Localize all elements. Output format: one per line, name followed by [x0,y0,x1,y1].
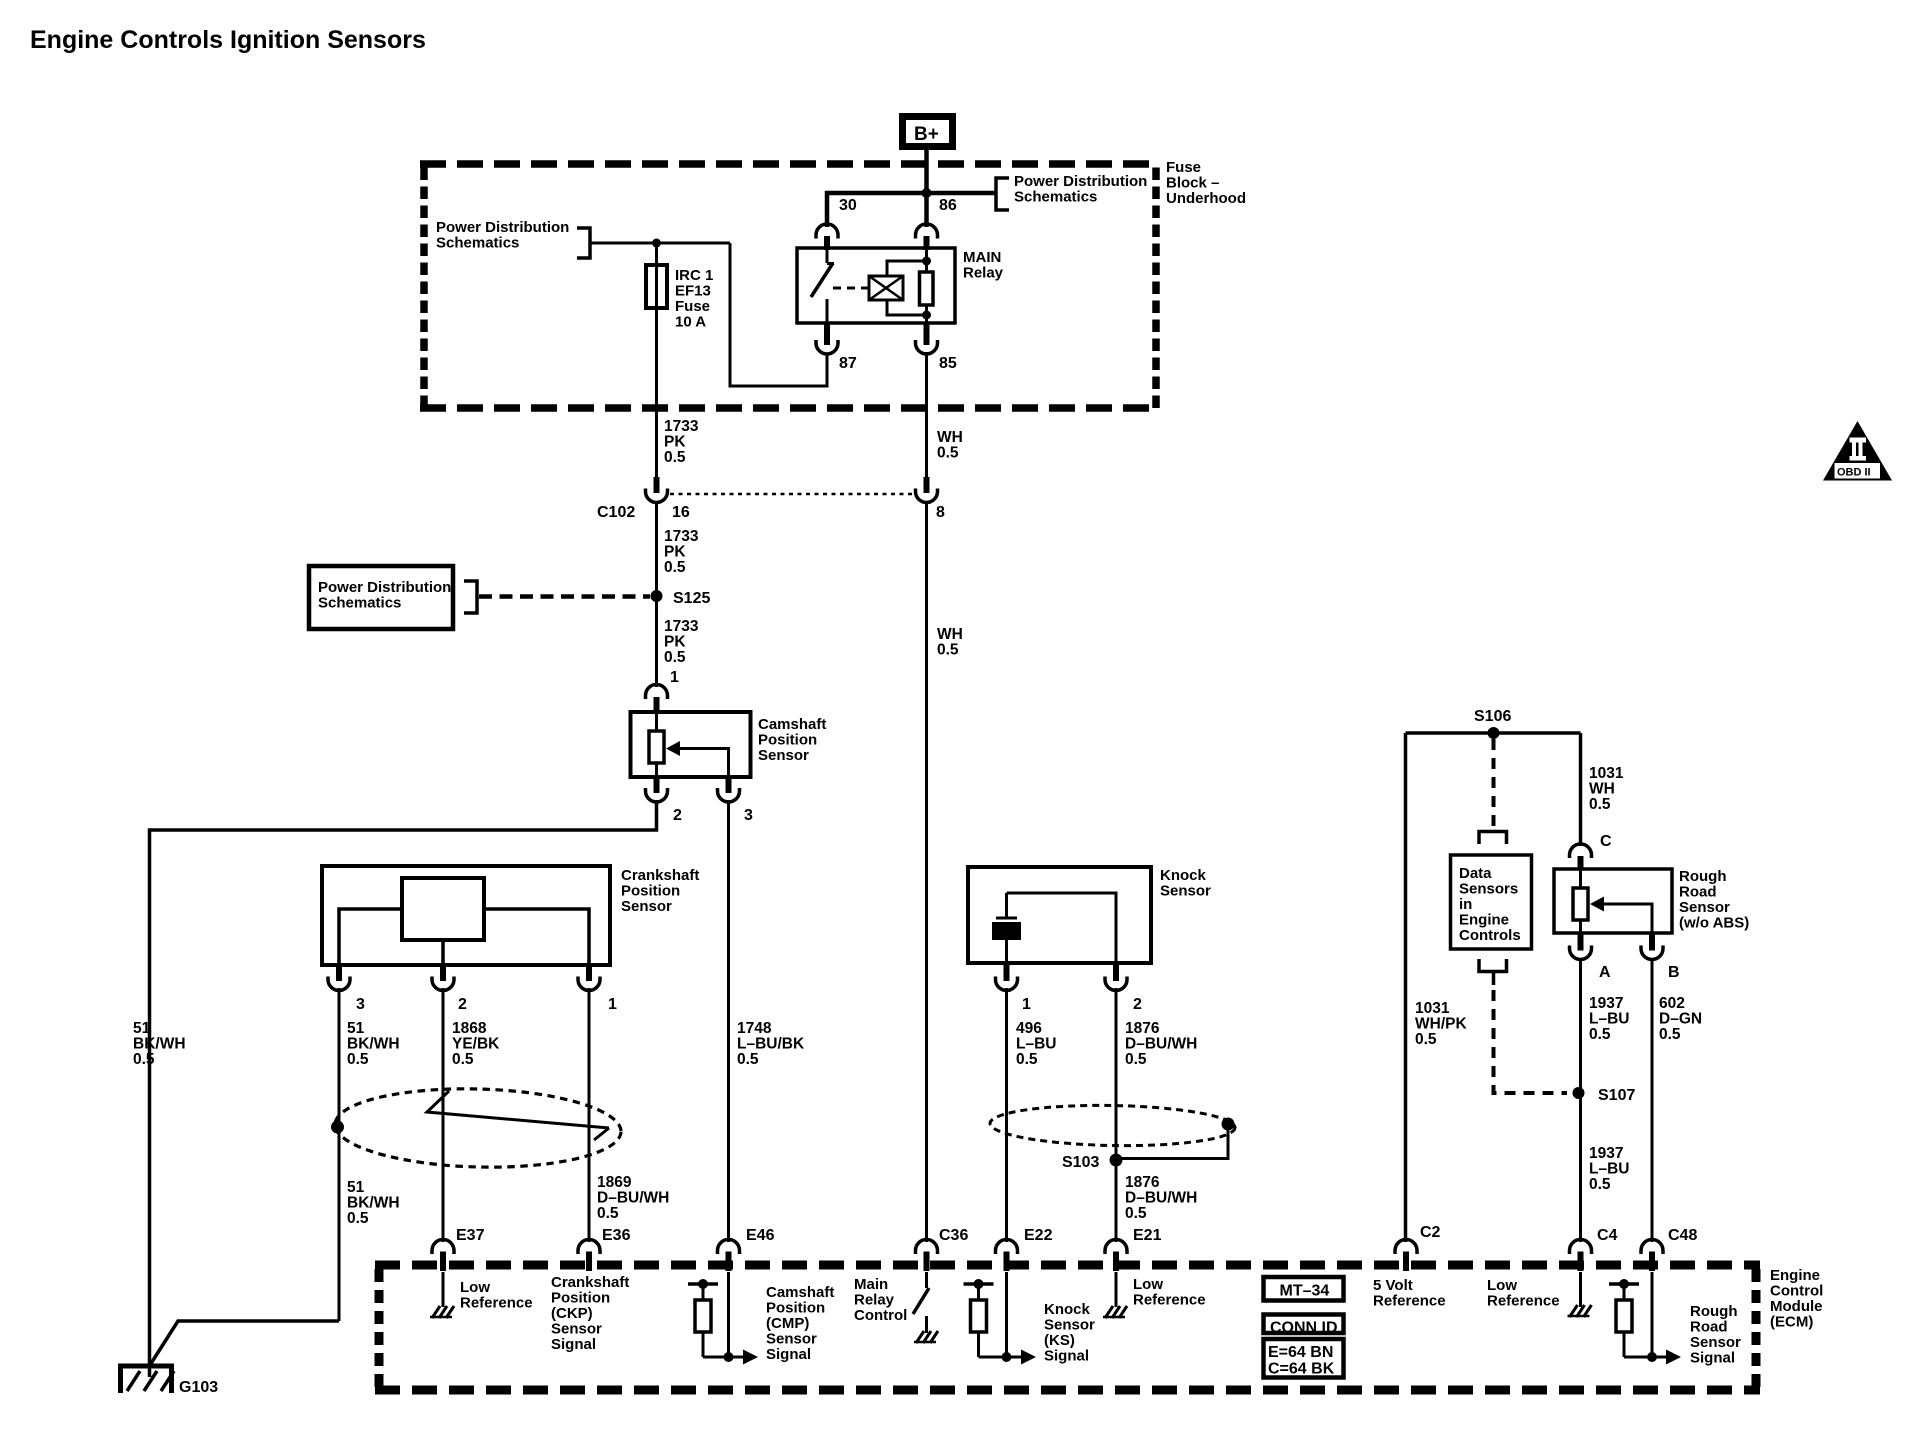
ECM rough road input pull-up resistor [1609,1272,1681,1365]
camshaft sensor pin 1 connector [646,669,680,713]
svg-text:Position: Position [551,1290,610,1307]
reference box MT-34 [1264,1277,1344,1301]
svg-text:PK: PK [664,434,686,451]
rough road sensor box [1554,869,1672,933]
connector C4 [1570,1227,1618,1271]
splice S107 [1573,1087,1636,1104]
svg-text:Sensor: Sensor [621,898,672,915]
svg-text:Reference: Reference [1487,1293,1560,1310]
svg-text:C4: C4 [1597,1227,1618,1244]
svg-text:Sensor: Sensor [1044,1317,1095,1334]
ECM KS input pull-up resistor [964,1272,1037,1365]
label 1869 D-BU/WH 0.5 [597,1174,669,1222]
ground G103 [118,1364,174,1393]
ECM CMP input pull-up resistor [688,1272,758,1365]
svg-text:WH/PK: WH/PK [1415,1016,1467,1033]
label 1876 D-BU/WH 0.5 (above shield) [1125,1020,1197,1068]
svg-text:L–BU/BK: L–BU/BK [737,1036,805,1053]
svg-text:(ECM): (ECM) [1770,1314,1813,1331]
crankshaft position sensor box [322,866,610,965]
crankshaft sensor internal wires [339,909,589,965]
connector C2 [1395,1224,1441,1271]
svg-text:Camshaft: Camshaft [766,1284,834,1301]
wire S106 rail [1406,731,1581,735]
svg-text:1: 1 [670,669,679,686]
svg-text:Sensor: Sensor [1160,883,1211,900]
svg-text:E22: E22 [1024,1227,1053,1244]
svg-text:1733: 1733 [664,418,699,435]
svg-text:Engine: Engine [1459,912,1509,929]
wire 1868 crank pin 2 to E37 [442,988,445,1242]
svg-text:Control: Control [854,1307,907,1324]
camshaft sensor wiper arrow [666,741,729,777]
knock sensor box [968,867,1151,963]
knock pin 2 connector [1105,963,1142,1013]
svg-text:E21: E21 [1133,1227,1162,1244]
svg-text:E37: E37 [456,1227,485,1244]
wire 602 pin B to C48 [1651,958,1654,1242]
svg-text:0.5: 0.5 [664,649,686,666]
svg-text:8: 8 [936,504,945,521]
label C102 [597,504,635,521]
reference box connector IDs [1264,1339,1344,1378]
connector E22 [996,1227,1053,1271]
svg-text:EF13: EF13 [675,283,711,300]
svg-text:(CMP): (CMP) [766,1315,809,1332]
svg-text:(w/o ABS): (w/o ABS) [1679,915,1749,932]
wire 1937 pin A to S107 [1579,958,1582,1093]
relay coil (box with X) [869,276,903,300]
svg-text:S103: S103 [1062,1154,1099,1171]
svg-text:Power Distribution: Power Distribution [1014,173,1147,190]
svg-text:Engine Controls Ignition Senso: Engine Controls Ignition Sensors [30,26,426,54]
svg-text:0.5: 0.5 [937,642,959,659]
ECM low reference C4 ground [1568,1272,1592,1317]
node junction at power feed [922,188,932,198]
svg-text:Position: Position [621,883,680,900]
rough road pin B connector [1641,933,1680,981]
connector C36 [916,1227,969,1271]
svg-text:0.5: 0.5 [1415,1031,1437,1048]
OBD II marker [1823,421,1892,481]
engine control module dashed box [375,1265,1760,1390]
connector C48 [1641,1227,1697,1271]
connector E21 [1105,1227,1162,1271]
svg-text:in: in [1459,896,1472,913]
svg-text:2: 2 [1133,996,1142,1013]
svg-text:C2: C2 [1420,1224,1441,1241]
svg-text:Signal: Signal [1044,1348,1089,1365]
svg-text:1: 1 [608,996,617,1013]
svg-text:Rough: Rough [1679,868,1726,885]
wire camshaft pin 2 to ground run [150,800,657,1377]
wire 51 BK/WH ground leg [338,988,341,1321]
crankshaft pin 1 connector [578,965,617,1013]
svg-text:Position: Position [758,732,817,749]
shield drain zigzag [427,1091,609,1140]
svg-text:Rough: Rough [1690,1303,1737,1320]
svg-text:1876: 1876 [1125,1020,1160,1037]
svg-text:(CKP): (CKP) [551,1305,593,1322]
knock sensor internal wire to pin 2 [1007,893,1117,963]
svg-text:Road: Road [1690,1319,1728,1336]
svg-text:1937: 1937 [1589,995,1623,1012]
svg-text:0.5: 0.5 [1589,1176,1611,1193]
svg-text:1876: 1876 [1125,1174,1160,1191]
svg-text:Reference: Reference [1133,1292,1206,1309]
svg-text:0.5: 0.5 [664,559,686,576]
svg-text:0.5: 0.5 [597,1205,619,1222]
node knock shield dot [1222,1118,1235,1131]
svg-text:0.5: 0.5 [347,1051,369,1068]
svg-text:C: C [1600,833,1612,850]
wire WH relay 85 down [925,352,928,477]
pin 86 connector [916,197,957,250]
wire 1733 PK C102 to S125 [655,501,658,596]
label 51 BK/WH 0.5 (below shield) [347,1179,400,1227]
svg-text:5 Volt: 5 Volt [1373,1277,1413,1294]
svg-text:Schematics: Schematics [436,235,519,252]
svg-text:0.5: 0.5 [1589,1026,1611,1043]
svg-text:Block –: Block – [1166,175,1219,192]
label 1733 PK 0.5 (above C102) [664,418,699,466]
svg-text:1031: 1031 [1415,1000,1450,1017]
shield ellipse (crankshaft wires) [334,1085,622,1170]
label 1733 PK 0.5 (above S125) [664,528,699,576]
svg-text:YE/BK: YE/BK [452,1036,500,1053]
svg-text:Position: Position [766,1300,825,1317]
label Knock Sensor (KS) Signal [1044,1301,1095,1365]
label 602 D-GN 0.5 [1659,995,1702,1043]
svg-text:MAIN: MAIN [963,249,1001,266]
pin 30 connector [816,197,857,250]
camshaft position sensor box [631,712,751,777]
bracket power distribution (left) [577,228,590,258]
svg-text:0.5: 0.5 [1659,1026,1681,1043]
wire 1733 PK fuse to C102 [655,408,658,477]
svg-text:Controls: Controls [1459,927,1521,944]
label MAIN Relay [963,249,1004,282]
svg-text:Road: Road [1679,884,1717,901]
node shield to ground splice [331,1121,344,1134]
wire 1876 to E21 [1115,988,1118,1242]
svg-text:0.5: 0.5 [1125,1051,1147,1068]
wire 1869 crank pin 1 to E36 [588,988,591,1242]
connector E37 [432,1227,485,1271]
svg-text:C102: C102 [597,504,635,521]
label Power Distribution Schematics (left) [436,219,569,252]
crankshaft pin 3 connector [328,965,365,1013]
svg-text:1: 1 [1022,996,1031,1013]
svg-text:0.5: 0.5 [737,1051,759,1068]
svg-text:1869: 1869 [597,1174,632,1191]
fuse IRC 1 EF13 10A [646,265,667,308]
battery feed B+ [903,117,953,147]
svg-text:3: 3 [356,996,365,1013]
wire through fuse [655,243,658,408]
svg-text:Sensor: Sensor [1690,1334,1741,1351]
svg-text:Knock: Knock [1044,1301,1091,1318]
svg-text:D–GN: D–GN [1659,1011,1702,1028]
svg-text:C36: C36 [939,1227,968,1244]
wire 1748 camshaft pin 3 to E46 [727,800,730,1242]
svg-text:PK: PK [664,544,686,561]
svg-text:0.5: 0.5 [1589,796,1611,813]
svg-text:602: 602 [1659,995,1685,1012]
label 51 BK/WH 0.5 (pin 3) [347,1020,400,1068]
svg-text:Relay: Relay [963,265,1004,282]
label Camshaft Position (CMP) Sensor Signal [766,1284,834,1363]
svg-text:87: 87 [839,355,857,372]
svg-text:Fuse: Fuse [675,298,710,315]
svg-text:OBD II: OBD II [1837,467,1871,479]
label Rough Road Sensor (w/o ABS) [1679,868,1749,932]
rough road sensor element (resistor) [1573,869,1588,933]
label Low Reference (E37) [460,1279,533,1312]
relay switch contact 30-87 [811,249,834,323]
relay U1 MAIN Relay box [797,248,955,323]
svg-text:Schematics: Schematics [318,595,401,612]
connector C102 pin 16 [646,477,668,503]
svg-text:C=64 BK: C=64 BK [1268,1361,1335,1378]
svg-text:Signal: Signal [551,1336,596,1353]
wire 1937 S107 to C4 [1579,1093,1582,1242]
svg-text:2: 2 [458,996,467,1013]
crankshaft pin 2 connector [432,965,467,1013]
pin 85 connector [916,323,957,372]
svg-text:Sensor: Sensor [551,1321,602,1338]
connector E46 [718,1227,775,1271]
svg-text:1733: 1733 [664,528,699,545]
svg-text:Knock: Knock [1160,867,1207,884]
svg-text:Schematics: Schematics [1014,189,1097,206]
svg-text:1868: 1868 [452,1020,487,1037]
svg-text:B+: B+ [914,124,939,145]
ECM low reference E37 ground [430,1272,454,1318]
label Power Distribution Schematics (right) [1014,173,1147,206]
label WH 0.5 (mid run) [937,626,963,659]
knock sensor element (piezo) [992,893,1021,963]
bracket above data sensors box [1479,832,1507,845]
label WH 0.5 (above C102 line) [937,429,963,462]
label Crankshaft Position (CKP) Sensor Signal [551,1274,629,1353]
camshaft sensor pin 3 connector [718,777,754,824]
wire 1733 PK S125 to camshaft sensor [655,596,658,687]
wire WH C102-8 to C36 [925,501,928,1242]
svg-text:Underhood: Underhood [1166,190,1246,207]
pin 87 connector [816,323,857,372]
svg-text:MT–34: MT–34 [1280,1283,1330,1300]
svg-text:Relay: Relay [854,1292,895,1309]
svg-text:0.5: 0.5 [664,449,686,466]
svg-text:Engine: Engine [1770,1267,1820,1284]
wire feed path to pin 87 [730,243,827,386]
label 1868 YE/BK 0.5 [452,1020,500,1068]
label Power Distribution Schematics (box) [318,579,451,612]
splice S103 [1062,1154,1123,1172]
svg-text:0.5: 0.5 [347,1210,369,1227]
svg-text:WH: WH [1589,781,1615,798]
label Crankshaft Position Sensor [621,867,699,915]
svg-text:1031: 1031 [1589,765,1624,782]
svg-text:D–BU/WH: D–BU/WH [1125,1036,1197,1053]
svg-text:E46: E46 [746,1227,775,1244]
svg-text:0.5: 0.5 [133,1051,155,1068]
svg-text:Module: Module [1770,1298,1823,1315]
bracket below data sensors box [1479,959,1507,972]
dashed wire S106 to data sensors [1492,739,1496,828]
splice S125 [651,590,711,607]
label 1733 PK 0.5 (below S125) [664,618,699,666]
svg-text:L–BU: L–BU [1589,1011,1629,1028]
label 1937 L-BU 0.5 (lower) [1589,1145,1629,1193]
label Main Relay Control [854,1276,907,1324]
svg-text:0.5: 0.5 [1016,1051,1038,1068]
svg-text:WH: WH [937,429,963,446]
svg-text:Low: Low [1133,1276,1163,1293]
svg-text:L–BU: L–BU [1589,1161,1629,1178]
connector C102 dotted tie line [670,493,913,496]
camshaft sensor element (resistor) [649,712,664,777]
svg-text:Crankshaft: Crankshaft [551,1274,629,1291]
svg-text:0.5: 0.5 [1125,1205,1147,1222]
label 1031 WH/PK 0.5 [1415,1000,1467,1048]
svg-text:E=64 BN: E=64 BN [1268,1344,1333,1361]
svg-text:Low: Low [460,1279,490,1296]
connector E36 [578,1227,631,1271]
camshaft sensor pin 2 connector [646,777,683,824]
svg-text:PK: PK [664,634,686,651]
stub below bracket [1492,972,1496,986]
ECM main relay control switch [913,1272,938,1343]
svg-text:BK/WH: BK/WH [133,1036,186,1053]
wire 496 L-BU to E22 [1005,988,1008,1242]
wire B+ down to junction [924,150,929,227]
svg-text:(KS): (KS) [1044,1332,1075,1349]
svg-text:A: A [1599,964,1611,981]
label 1876 D-BU/WH 0.5 (below shield) [1125,1174,1197,1222]
svg-text:Sensor: Sensor [1679,899,1730,916]
svg-text:Power Distribution: Power Distribution [436,219,569,236]
rough road sensor pin C connector [1570,833,1613,870]
label Low Reference (C4) [1487,1277,1560,1310]
svg-text:S107: S107 [1598,1087,1635,1104]
rough road pin A connector [1570,933,1612,981]
label 1748 L-BU/BK 0.5 [737,1020,805,1068]
label 1031 WH 0.5 [1589,765,1624,813]
svg-text:86: 86 [939,197,957,214]
data sensors in engine controls box [1451,855,1532,949]
fuse block underhood dashed box [420,164,1160,408]
svg-text:Sensors: Sensors [1459,881,1518,898]
svg-text:51: 51 [133,1020,151,1037]
svg-text:Main: Main [854,1276,888,1293]
svg-text:D–BU/WH: D–BU/WH [597,1190,669,1207]
svg-text:Reference: Reference [1373,1293,1446,1310]
svg-text:Signal: Signal [1690,1350,1735,1367]
knock pin 1 connector [996,963,1032,1013]
wire 1031 WH S106 to rough road C [1579,733,1583,846]
svg-text:Control: Control [1770,1283,1823,1300]
svg-text:10 A: 10 A [675,314,706,331]
label pin 16 [672,504,690,521]
label 496 L-BU 0.5 [1016,1020,1056,1068]
svg-text:16: 16 [672,504,690,521]
svg-text:D–BU/WH: D–BU/WH [1125,1190,1197,1207]
label Knock Sensor [1160,867,1211,900]
shield ellipse (knock wires) [990,1103,1236,1147]
svg-text:1733: 1733 [664,618,699,635]
svg-text:G103: G103 [179,1379,218,1396]
svg-text:BK/WH: BK/WH [347,1195,400,1212]
svg-text:30: 30 [839,197,857,214]
svg-text:Crankshaft: Crankshaft [621,867,699,884]
wire 1031 WH/PK S106 to C2 [1404,733,1408,1242]
rough road sensor wiper arrow [1590,897,1652,934]
svg-text:51: 51 [347,1179,365,1196]
svg-text:Power Distribution: Power Distribution [318,579,451,596]
bracket to S125 [464,581,477,613]
svg-text:B: B [1668,964,1680,981]
svg-text:3: 3 [744,807,753,824]
power distribution schematics reference box [309,566,453,629]
svg-text:Reference: Reference [460,1295,533,1312]
svg-text:2: 2 [673,807,682,824]
relay internal wiring pin 86 branch [887,249,931,276]
svg-text:WH: WH [937,626,963,643]
label Camshaft Position Sensor [758,716,826,764]
svg-text:Sensor: Sensor [758,747,809,764]
label fuse IRC 1 EF13 [675,267,713,331]
label Low Reference (E21) [1133,1276,1206,1309]
svg-text:S106: S106 [1474,708,1511,725]
label Data Sensors in Engine Controls [1459,865,1521,944]
label 5 Volt Reference [1373,1277,1446,1310]
svg-text:Signal: Signal [766,1346,811,1363]
svg-text:Fuse: Fuse [1166,159,1201,176]
svg-text:Data: Data [1459,865,1492,882]
svg-text:E36: E36 [602,1227,631,1244]
svg-text:1937: 1937 [1589,1145,1623,1162]
svg-text:Sensor: Sensor [766,1331,817,1348]
svg-text:S125: S125 [673,590,710,607]
relay actuation dashed link [833,287,868,290]
reference box CONN ID [1264,1315,1344,1337]
svg-text:Low: Low [1487,1277,1517,1294]
dashed wire data sensors to S107 [1494,990,1568,1093]
relay coil resistor [920,272,934,305]
relay internal wiring to pin 85 [887,300,931,323]
label 1937 L-BU 0.5 (upper) [1589,995,1629,1043]
node fuse junction [652,239,661,248]
wire power horizontal to pin 30 [827,193,927,227]
svg-text:0.5: 0.5 [937,445,959,462]
label 51 BK/WH 0.5 (far left) [133,1020,186,1068]
dashed wire bracket to S125 [479,594,650,599]
svg-text:85: 85 [939,355,957,372]
svg-text:BK/WH: BK/WH [347,1036,400,1053]
svg-text:CONN ID: CONN ID [1270,1320,1338,1337]
label Fuse Block Underhood [1166,159,1246,207]
svg-text:0.5: 0.5 [452,1051,474,1068]
svg-text:1748: 1748 [737,1020,772,1037]
svg-text:IRC 1: IRC 1 [675,267,713,284]
svg-text:C48: C48 [1668,1227,1697,1244]
svg-text:L–BU: L–BU [1016,1036,1056,1053]
splice S106 [1474,708,1511,739]
label Engine Control Module (ECM) [1770,1267,1823,1331]
title [30,26,426,54]
